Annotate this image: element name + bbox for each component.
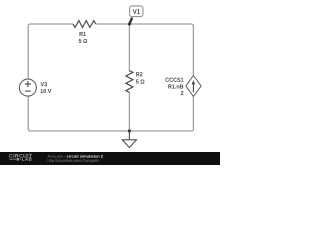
label R1 xyxy=(79,32,85,36)
ground xyxy=(122,131,136,148)
label R2 xyxy=(136,72,142,76)
wire: middle branch lower, R2 bottom to ground junction xyxy=(128,92,130,131)
resistor R1 xyxy=(73,21,96,28)
label R1 value 5 ohm xyxy=(79,39,87,43)
voltage source V3 xyxy=(19,79,36,96)
junction dot at ground node xyxy=(128,129,131,132)
wire: top-left from R1 left lead around corner down to V3 top xyxy=(28,24,73,80)
footer credit line 1 xyxy=(48,155,103,158)
wire: bottom loop from V3 bottom around corners up to CCCS1 bottom xyxy=(28,96,193,131)
label R2 value 5 ohm xyxy=(136,79,144,83)
label V3 value 10 V xyxy=(41,89,52,93)
CircuitLab logo xyxy=(9,154,32,161)
label CCCS1 xyxy=(165,78,183,82)
CCCS1 dependent current source xyxy=(186,76,201,97)
wire: top-right from R1 right lead around corner down to CCCS1 top xyxy=(96,24,194,75)
label CCCS1 control R1.nB xyxy=(168,84,183,88)
node V1 flag pointer xyxy=(129,18,132,24)
label V3 xyxy=(41,82,47,86)
footer credit line 2 xyxy=(48,159,99,163)
label CCCS1 gain 2 xyxy=(181,91,184,95)
node V1 flag box xyxy=(130,6,143,17)
junction dot at node V1 xyxy=(128,22,131,25)
resistor R2 xyxy=(126,71,133,93)
footer bar xyxy=(0,152,220,165)
wire: middle branch upper, node V1 junction to R2 top xyxy=(128,24,130,71)
